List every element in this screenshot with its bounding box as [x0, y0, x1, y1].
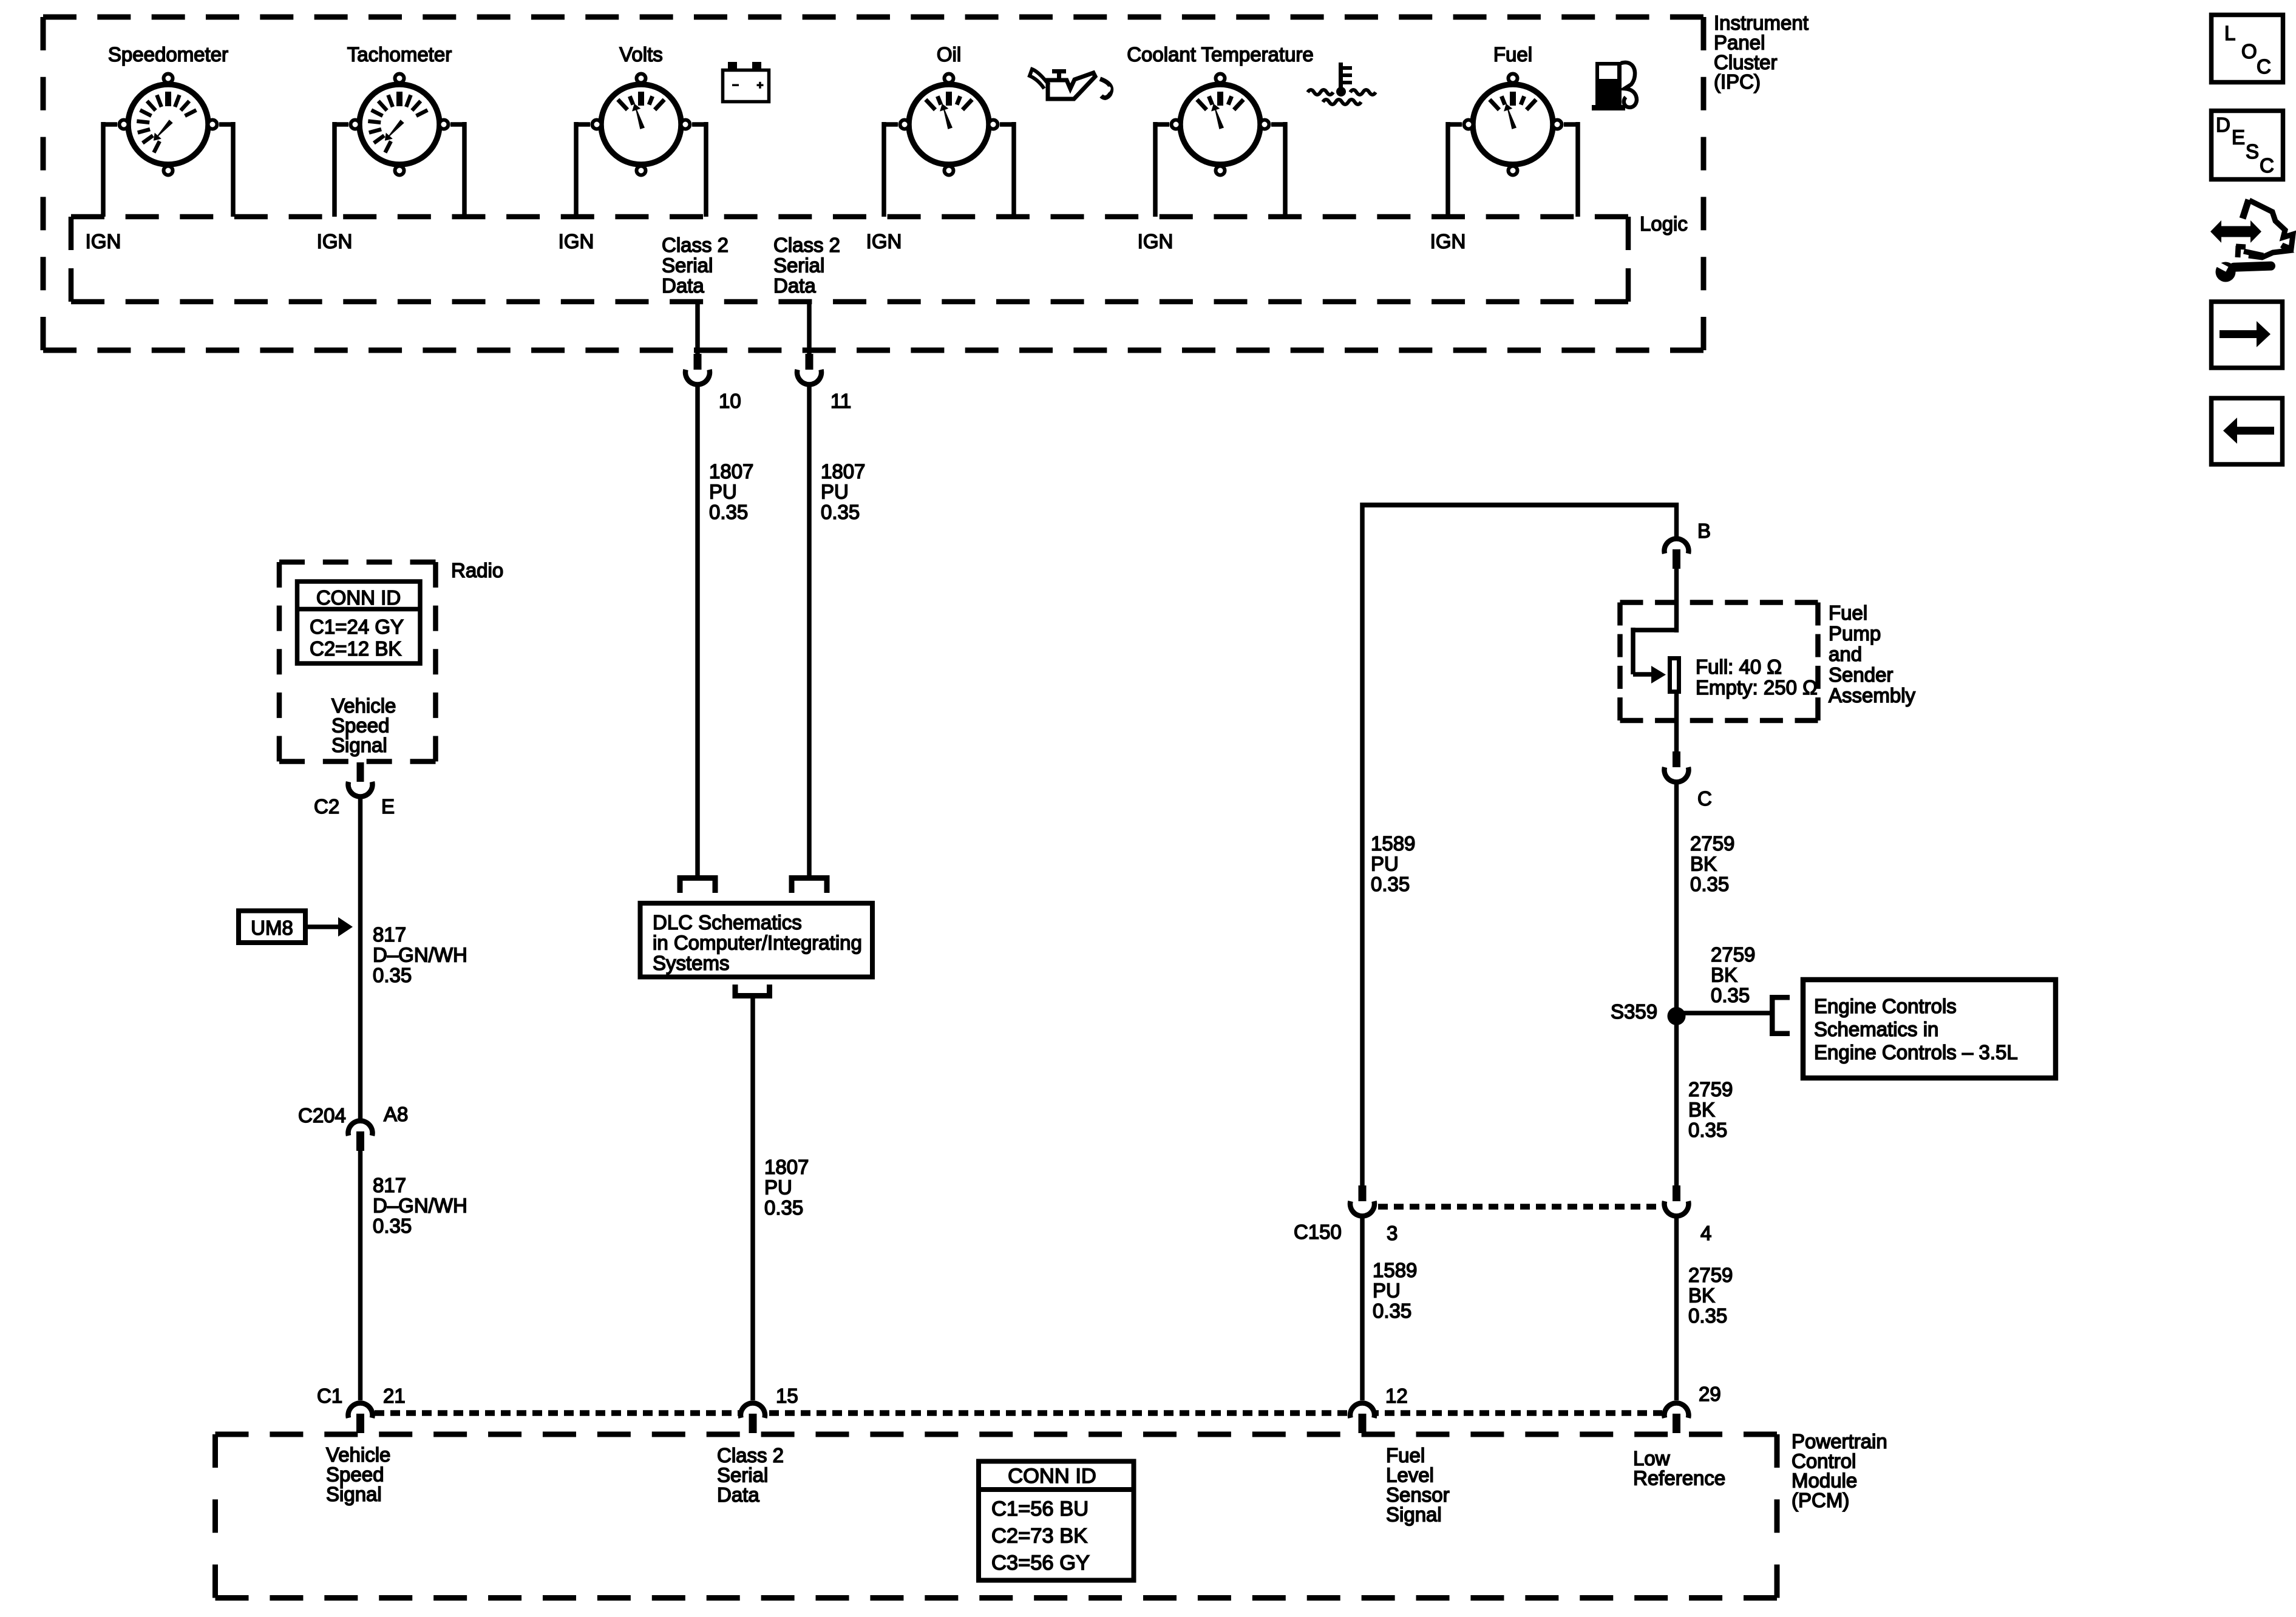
- label Class 2 Serial Data (left): [662, 234, 729, 297]
- box: Engine Controls Schematics reference: [1803, 980, 2056, 1078]
- box: Fuel Pump and Sender Assembly dashed outline: [1620, 603, 1818, 721]
- label 10: [719, 390, 741, 412]
- label Engine Controls Schematics in Engine Controls - 3.5L: [1814, 995, 2018, 1063]
- svg-text:12: 12: [1385, 1385, 1408, 1407]
- wire bracket for Fuel gauge: [1448, 122, 1578, 217]
- wire from S359 to Engine Controls bracket: [1677, 1011, 1770, 1015]
- label 12: [1385, 1385, 1408, 1407]
- wire 1589 PU from C150 to PCM pin 12: [1360, 1218, 1365, 1400]
- svg-text:CONN ID: CONN ID: [316, 586, 401, 609]
- gauge Volts: [593, 74, 690, 175]
- svg-text:UM8: UM8: [251, 917, 293, 939]
- label 21: [383, 1385, 406, 1407]
- coolant temperature icon: [1308, 63, 1376, 104]
- svg-text:C1=56 BU: C1=56 BU: [991, 1497, 1089, 1520]
- svg-text:3: 3: [1387, 1222, 1398, 1244]
- svg-text:IGN: IGN: [559, 230, 594, 253]
- wire 1589 PU left vertical to C150 pin 3: [1360, 503, 1365, 1185]
- svg-text:D: D: [2216, 114, 2230, 136]
- label C1=56 BU: [991, 1497, 1089, 1520]
- icon box left arrow: [2212, 398, 2283, 464]
- gauge Speedometer: [120, 74, 217, 175]
- box: Radio dashed outline: [279, 562, 436, 762]
- label Class 2 Serial Data (PCM): [717, 1444, 784, 1506]
- label 2759 BK 0.35 (lower): [1688, 1264, 1733, 1327]
- label IGN: [1430, 230, 1466, 253]
- label Speedometer: [108, 43, 228, 66]
- svg-text:Tachometer: Tachometer: [347, 43, 452, 66]
- label Instrument Panel Cluster (IPC): [1714, 12, 1809, 93]
- svg-text:E: E: [2232, 126, 2245, 149]
- connector pin 10 of IPC: [685, 354, 710, 384]
- svg-text:E: E: [381, 795, 395, 818]
- wire down to connector B: [1674, 503, 1679, 537]
- svg-text:IGN: IGN: [1138, 230, 1173, 253]
- wire 817 D-GN/WH from C204 to PCM pin 21: [358, 1151, 363, 1400]
- label CONN ID (Radio): [316, 586, 401, 609]
- wire 817 D-GN/WH from Radio to C204: [358, 797, 363, 1119]
- label Low Reference (PCM): [1633, 1447, 1725, 1490]
- svg-text:C: C: [2257, 55, 2271, 78]
- label C150: [1294, 1221, 1342, 1243]
- label Radio: [451, 559, 503, 581]
- wire bracket for Oil gauge: [884, 122, 1014, 217]
- label 1807 PU 0.35 (DLC to PCM): [764, 1156, 809, 1219]
- svg-text:Speedometer: Speedometer: [108, 43, 228, 66]
- connector PCM pin 12: [1350, 1403, 1374, 1433]
- label B: [1697, 520, 1711, 542]
- label Empty: 250 ohm: [1696, 676, 1818, 699]
- label Volts: [619, 43, 663, 66]
- svg-text:B: B: [1697, 520, 1711, 542]
- label IGN: [559, 230, 594, 253]
- connector PCM pin 29: [1665, 1403, 1689, 1433]
- label 29: [1699, 1383, 1721, 1405]
- svg-text:C: C: [2260, 154, 2274, 177]
- wire 2759 BK from C to splice S359: [1674, 783, 1679, 1019]
- svg-text:IGN: IGN: [86, 230, 121, 253]
- label 817 D-GN/WH 0.35 (upper): [373, 923, 467, 986]
- svg-text:Coolant Temperature: Coolant Temperature: [1127, 43, 1314, 66]
- label Logic: [1640, 212, 1688, 235]
- box UM8: [239, 911, 305, 943]
- label 3: [1387, 1222, 1398, 1244]
- svg-text:C2: C2: [314, 795, 339, 818]
- svg-text:VehicleSpeedSignal: VehicleSpeedSignal: [331, 694, 396, 756]
- bracket to Engine Controls schematics: [1770, 995, 1790, 1036]
- connector C2 pin E of Radio: [348, 762, 372, 796]
- label Oil: [937, 43, 961, 66]
- label C3=56 GY: [991, 1551, 1090, 1575]
- connector PCM pin 15: [741, 1403, 765, 1433]
- label 1589 PU 0.35 (lower): [1373, 1259, 1417, 1322]
- fuel pump icon: [1592, 62, 1637, 110]
- connector pin 11 of IPC: [797, 354, 821, 384]
- label Fuel Level Sensor Signal (PCM): [1386, 1444, 1450, 1526]
- DLC bottom bracket: [733, 985, 773, 998]
- DLC top bracket (pin 11 wire): [789, 875, 830, 893]
- wire bracket for Coolant Temperature gauge: [1155, 122, 1285, 217]
- CONN ID table (Radio): [295, 581, 423, 663]
- svg-text:10: 10: [719, 390, 741, 412]
- svg-text:C2=73 BK: C2=73 BK: [991, 1525, 1087, 1548]
- label 1589 PU 0.35 (upper): [1371, 832, 1415, 895]
- label 2759 BK 0.35 (below C): [1690, 832, 1734, 895]
- dotted connector line across PCM pins: [375, 1410, 1662, 1416]
- wire 1589 PU top horizontal run: [1362, 503, 1677, 507]
- svg-text:C204: C204: [298, 1104, 346, 1127]
- box: Powertrain Control Module (PCM) dashed outline: [216, 1434, 1778, 1598]
- wire 2759 BK from C150 to PCM pin 29: [1674, 1218, 1679, 1400]
- svg-text:A8: A8: [384, 1103, 408, 1125]
- svg-text:L: L: [2224, 22, 2235, 44]
- svg-text:S: S: [2246, 140, 2259, 163]
- icon box DESC: [2212, 111, 2283, 180]
- svg-text:11: 11: [830, 390, 851, 412]
- oil can icon: [1030, 69, 1112, 99]
- wire 1807 PU from IPC logic to connector 10: [695, 302, 700, 354]
- svg-text:C: C: [1697, 787, 1712, 810]
- label E: [381, 795, 395, 818]
- wire into fuel pump assembly: [1674, 569, 1679, 632]
- svg-text:C2=12 BK: C2=12 BK: [310, 637, 401, 660]
- svg-text:IGN: IGN: [866, 230, 902, 253]
- label 2759 BK 0.35 (above S359): [1711, 943, 1755, 1006]
- wire bracket for Speedometer gauge: [103, 122, 233, 217]
- svg-text:Radio: Radio: [451, 559, 503, 581]
- box: Logic dashed outline: [71, 217, 1628, 302]
- svg-text:C3=56 GY: C3=56 GY: [991, 1551, 1090, 1575]
- label C2=73 BK: [991, 1525, 1087, 1548]
- label C1=24 GY: [310, 615, 404, 638]
- svg-text:S359: S359: [1611, 1000, 1657, 1023]
- wire bracket for Volts gauge: [576, 122, 706, 217]
- svg-text:Fuel: Fuel: [1493, 43, 1532, 66]
- svg-text:29: 29: [1699, 1383, 1721, 1405]
- label Fuel Pump and Sender Assembly: [1829, 602, 1916, 707]
- label 4: [1700, 1222, 1711, 1244]
- label 2759 BK 0.35 (below S359): [1688, 1078, 1733, 1141]
- svg-text:Volts: Volts: [619, 43, 663, 66]
- svg-text:C1=24 GY: C1=24 GY: [310, 615, 404, 638]
- label IGN: [866, 230, 902, 253]
- label 15: [776, 1385, 798, 1407]
- label Powertrain Control Module (PCM): [1792, 1430, 1887, 1511]
- label 1807 PU 0.35 (right): [821, 460, 865, 523]
- svg-text:Logic: Logic: [1640, 212, 1688, 235]
- wire 2759 BK from S359 to C150 pin 4: [1674, 1014, 1679, 1185]
- resistor: fuel level sender (Full: 40 ohm / Empty: 250 ohm): [1670, 659, 1679, 692]
- label CONN ID (PCM): [1008, 1465, 1096, 1488]
- label C: [1697, 787, 1712, 810]
- svg-text:CONN ID: CONN ID: [1008, 1465, 1096, 1488]
- connector PCM pin 21 (C1): [348, 1403, 372, 1433]
- box: DLC Schematics: [640, 903, 873, 977]
- wire 1807 PU down to DLC bracket (right): [807, 387, 812, 876]
- connector C204 pin A8: [348, 1121, 372, 1151]
- svg-text:Oil: Oil: [937, 43, 961, 66]
- label Class 2 Serial Data (right): [773, 234, 840, 297]
- icon vehicle with double arrow and wrench: [2210, 200, 2293, 282]
- label Full: 40 ohm: [1696, 656, 1782, 678]
- dotted line of inline connector C150: [1378, 1204, 1660, 1210]
- label S359: [1611, 1000, 1657, 1023]
- label IGN: [86, 230, 121, 253]
- wire 1807 PU down to DLC bracket: [695, 387, 700, 876]
- label 11: [830, 390, 851, 412]
- box: Instrument Panel Cluster (IPC) dashed outline: [43, 17, 1703, 350]
- wire bracket for Tachometer gauge: [335, 122, 464, 217]
- label Tachometer: [347, 43, 452, 66]
- arrow from UM8 to wire: [305, 917, 353, 937]
- gauge Coolant Temperature: [1172, 74, 1269, 175]
- connector C150 pin 4: [1665, 1185, 1689, 1216]
- svg-text:VehicleSpeedSignal: VehicleSpeedSignal: [326, 1443, 390, 1505]
- connector C of Fuel Pump and Sender Assembly: [1665, 751, 1689, 782]
- svg-text:15: 15: [776, 1385, 798, 1407]
- label DLC Schematics in Computer/Integrating Systems: [653, 911, 862, 974]
- gauge Oil: [900, 74, 998, 175]
- svg-text:4: 4: [1700, 1222, 1711, 1244]
- svg-text:Full: 40 Ω: Full: 40 Ω: [1696, 656, 1782, 678]
- arrow to fuel level sender resistor: [1651, 666, 1666, 683]
- svg-text:21: 21: [383, 1385, 406, 1407]
- connector B of Fuel Pump and Sender Assembly: [1665, 539, 1689, 569]
- svg-text:IGN: IGN: [1430, 230, 1466, 253]
- gauge Tachometer: [351, 74, 449, 175]
- gauge Fuel: [1464, 74, 1562, 175]
- label C1: [317, 1385, 342, 1407]
- connector C150 pin 3: [1350, 1185, 1374, 1216]
- svg-text:IGN: IGN: [317, 230, 353, 253]
- label IGN: [317, 230, 353, 253]
- label Fuel: [1493, 43, 1532, 66]
- wire 1807 PU from DLC to PCM pin 15: [750, 998, 755, 1400]
- svg-text:C150: C150: [1294, 1221, 1342, 1243]
- wire from sender resistor to connector C: [1674, 693, 1679, 753]
- splice S359: [1668, 1007, 1686, 1025]
- CONN ID table (PCM): [976, 1462, 1134, 1581]
- label 1807 PU 0.35 (left): [709, 460, 753, 523]
- DLC top bracket (pin 10 wire): [678, 875, 718, 893]
- label C2: [314, 795, 339, 818]
- svg-text:C1: C1: [317, 1385, 342, 1407]
- icon box LOC: [2212, 15, 2283, 83]
- label A8: [384, 1103, 408, 1125]
- svg-text:Empty: 250 Ω: Empty: 250 Ω: [1696, 676, 1818, 699]
- label Coolant Temperature: [1127, 43, 1314, 66]
- wire 1807 PU from IPC logic to connector 11: [807, 302, 812, 354]
- label IGN: [1138, 230, 1173, 253]
- label UM8: [251, 917, 293, 939]
- icon box right arrow: [2212, 302, 2283, 368]
- label 817 D-GN/WH 0.35 (lower): [373, 1174, 467, 1237]
- label C2=12 BK: [310, 637, 401, 660]
- label C204: [298, 1104, 346, 1127]
- label Vehicle Speed Signal (PCM): [326, 1443, 390, 1505]
- label Vehicle Speed Signal (Radio): [331, 694, 396, 756]
- svg-text:O: O: [2241, 40, 2257, 63]
- battery icon: [723, 62, 769, 102]
- wire jog inside fuel pump assembly: [1633, 628, 1677, 674]
